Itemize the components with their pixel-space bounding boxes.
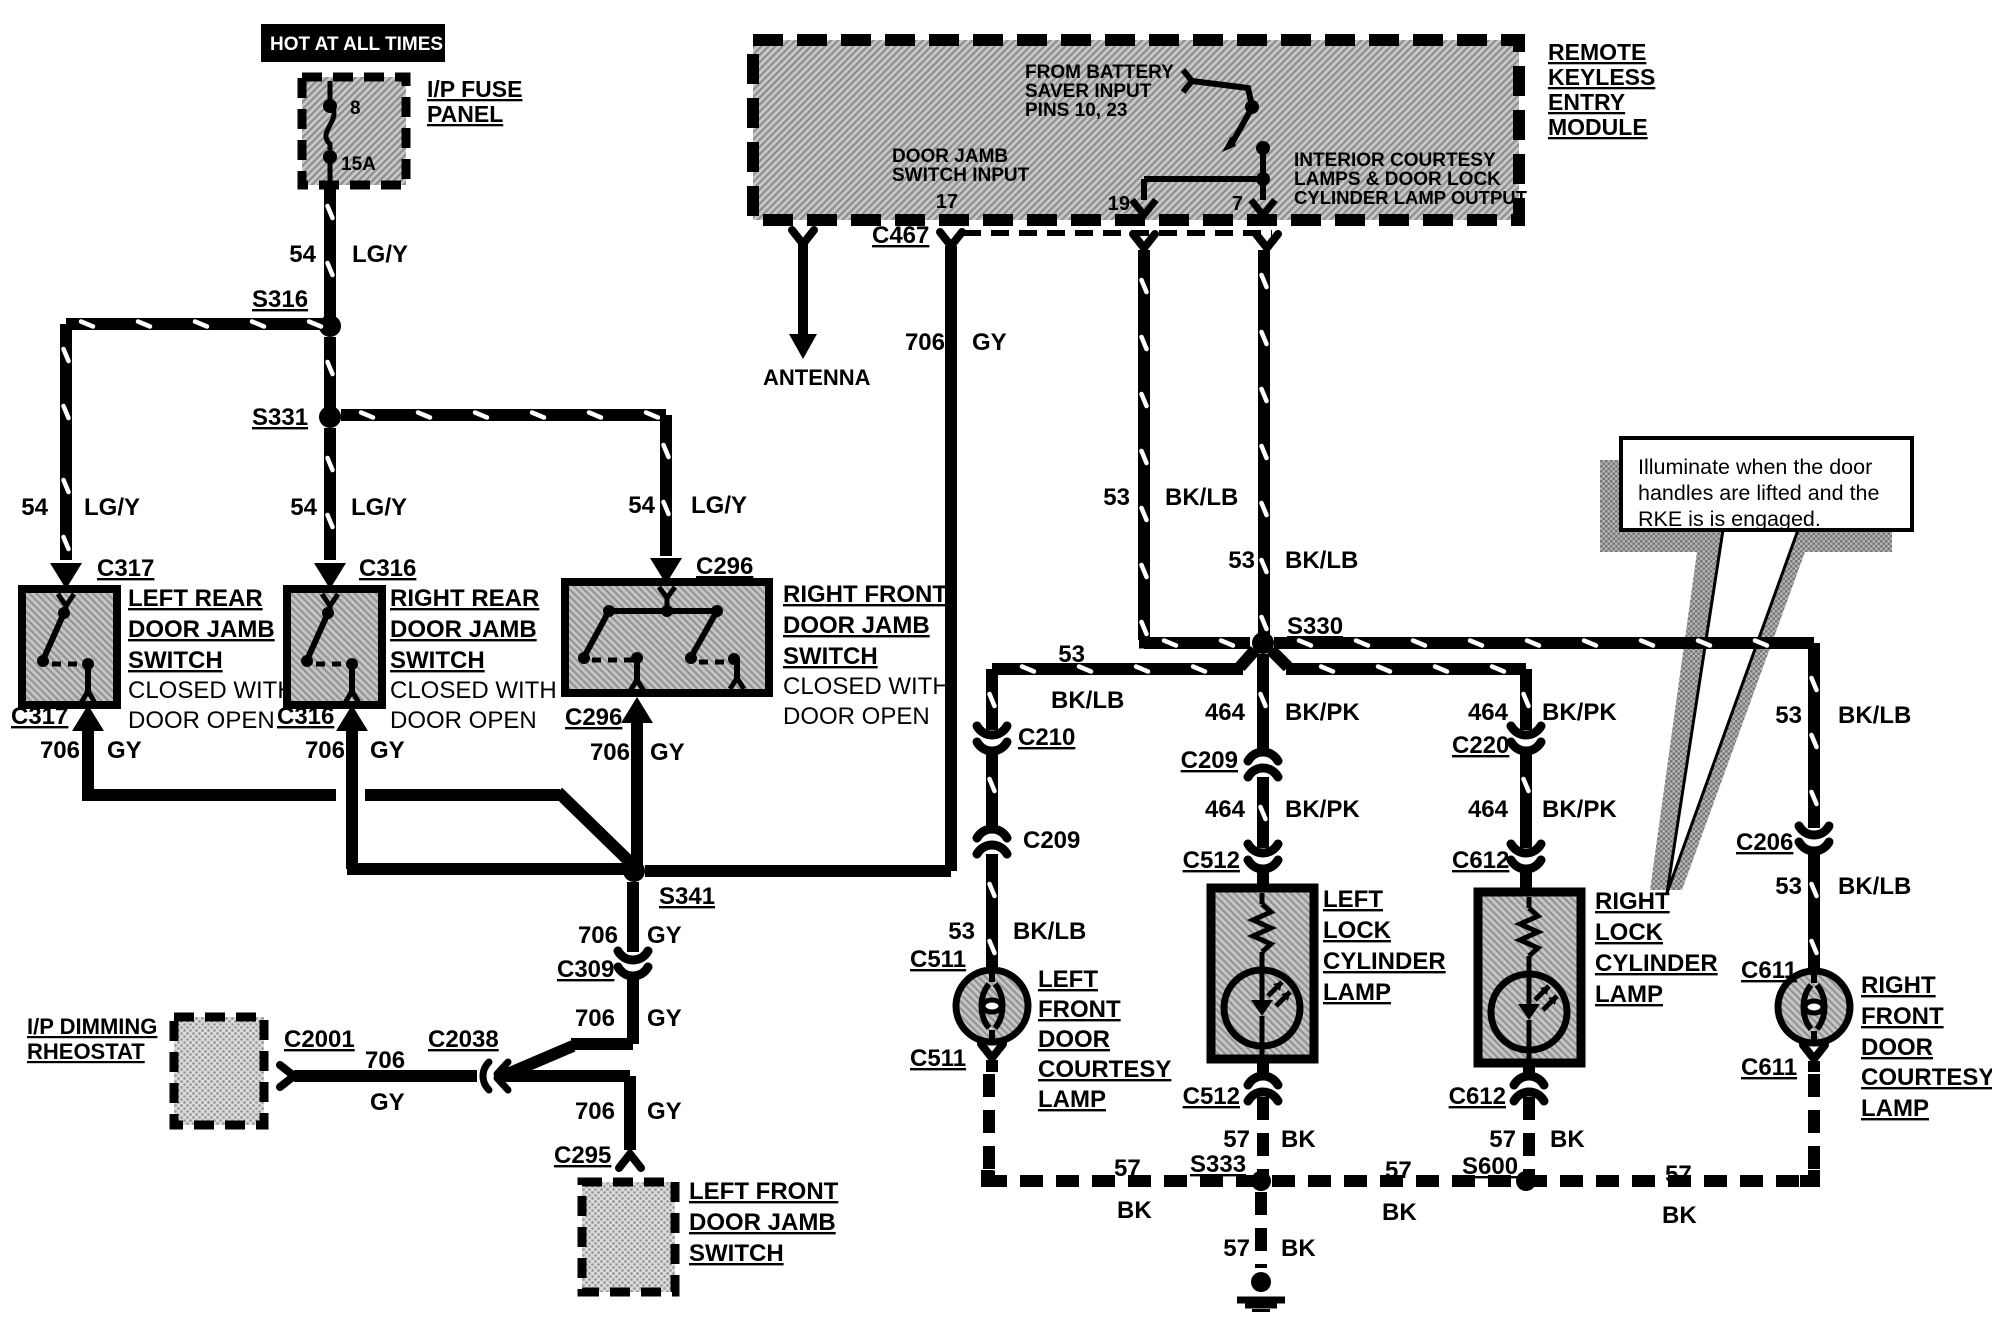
svg-text:COURTESY: COURTESY <box>1038 1056 1171 1083</box>
svg-text:FROM BATTERY: FROM BATTERY <box>1025 62 1174 83</box>
connector C2001 <box>280 1065 294 1087</box>
label 53 BK/LB above C511 <box>948 918 1086 945</box>
svg-text:DOOR OPEN: DOOR OPEN <box>390 707 537 734</box>
wire 706 C317 to S341 <box>82 731 336 801</box>
label 54 LG/Y right <box>628 492 747 519</box>
connector Y pin19 <box>1133 234 1155 248</box>
svg-text:BK/PK: BK/PK <box>1542 796 1617 823</box>
label C512 bottom <box>1183 1083 1240 1110</box>
svg-text:C612: C612 <box>1452 847 1509 874</box>
label 706 GY right <box>590 739 685 766</box>
svg-text:DOOR JAMB: DOOR JAMB <box>783 612 930 639</box>
label C511 bottom <box>910 1045 966 1072</box>
svg-text:8: 8 <box>350 98 361 119</box>
label 53 BK/LB right bottom <box>1775 873 1911 900</box>
svg-text:C611: C611 <box>1741 1054 1797 1081</box>
svg-text:LG/Y: LG/Y <box>691 492 747 519</box>
svg-text:15A: 15A <box>341 154 376 175</box>
label 54 LG/Y middle <box>290 494 407 521</box>
label 57 BK left vert <box>1223 1126 1316 1153</box>
svg-text:LAMP: LAMP <box>1595 981 1663 1008</box>
svg-text:MODULE: MODULE <box>1548 114 1648 140</box>
svg-text:DOOR JAMB: DOOR JAMB <box>128 616 275 643</box>
svg-text:RIGHT: RIGHT <box>1595 888 1670 915</box>
wire S330 to right branch <box>1271 650 1532 730</box>
label RIGHT REAR DOOR JAMB SWITCH <box>390 585 557 734</box>
svg-text:SWITCH: SWITCH <box>128 647 223 674</box>
svg-text:LAMP: LAMP <box>1861 1095 1929 1122</box>
wire C206 to C611 <box>1808 854 1820 968</box>
svg-text:C2001: C2001 <box>284 1026 355 1053</box>
svg-text:LOCK: LOCK <box>1323 917 1392 944</box>
svg-text:ENTRY: ENTRY <box>1548 89 1625 115</box>
svg-text:C512: C512 <box>1183 1083 1240 1110</box>
svg-text:BK: BK <box>1662 1202 1697 1229</box>
label 57 BK bus left <box>1114 1155 1152 1224</box>
wire S330 to right <box>1274 637 1820 828</box>
svg-text:C209: C209 <box>1181 747 1238 774</box>
svg-text:17: 17 <box>936 191 958 213</box>
label C316 top <box>359 555 416 582</box>
svg-text:DOOR JAMB: DOOR JAMB <box>390 616 537 643</box>
label 57 BK right vert <box>1489 1126 1585 1153</box>
svg-text:FRONT: FRONT <box>1861 1003 1944 1030</box>
svg-text:53: 53 <box>1775 702 1802 729</box>
label C317 bottom <box>11 703 68 730</box>
svg-text:COURTESY: COURTESY <box>1861 1064 1992 1091</box>
svg-text:BK/LB: BK/LB <box>1051 687 1124 714</box>
wire C220 to C612 <box>1520 754 1532 848</box>
svg-text:706: 706 <box>575 1005 615 1032</box>
label LEFT LOCK CYLINDER LAMP <box>1323 886 1446 1006</box>
svg-text:706: 706 <box>40 737 80 764</box>
svg-text:C209: C209 <box>1023 827 1080 854</box>
svg-text:C295: C295 <box>554 1142 611 1169</box>
label S333 <box>1190 1151 1246 1178</box>
arrow up into C316 <box>336 705 368 731</box>
svg-text:GY: GY <box>647 922 682 949</box>
svg-text:54: 54 <box>628 492 655 519</box>
label 53 BK/LB second <box>1228 547 1358 574</box>
svg-text:FRONT: FRONT <box>1038 996 1121 1023</box>
label C317 top <box>97 555 154 582</box>
left front door courtesy lamp C511 <box>956 970 1028 1042</box>
svg-text:S333: S333 <box>1190 1151 1246 1178</box>
svg-text:SWITCH: SWITCH <box>783 643 878 670</box>
svg-text:DOOR: DOOR <box>1861 1034 1933 1061</box>
svg-text:706: 706 <box>305 737 345 764</box>
label RIGHT LOCK CYLINDER LAMP <box>1595 888 1718 1008</box>
label 54 LG/Y <box>289 241 408 268</box>
remote keyless entry module box <box>753 40 1519 220</box>
wire S341 to module pin 17 <box>645 246 957 877</box>
label C209 center <box>1181 747 1238 774</box>
svg-text:464: 464 <box>1205 796 1246 823</box>
svg-text:S331: S331 <box>252 404 308 431</box>
wire S316 to left branch <box>60 318 322 560</box>
label 464 BK/PK center first <box>1205 699 1360 726</box>
svg-text:GY: GY <box>107 737 142 764</box>
svg-text:464: 464 <box>1205 699 1246 726</box>
label 706 GY below C309 <box>575 1005 682 1032</box>
module pin 7 label <box>1232 193 1243 215</box>
I/P dimming rheostat box <box>174 1017 264 1125</box>
svg-text:Illuminate when the door: Illuminate when the door <box>1638 455 1872 479</box>
svg-text:DOOR JAMB: DOOR JAMB <box>892 146 1008 167</box>
svg-text:RIGHT REAR: RIGHT REAR <box>390 585 539 612</box>
svg-text:54: 54 <box>21 494 48 521</box>
label 53 BK/LB right top <box>1775 702 1911 729</box>
svg-text:I/P DIMMING: I/P DIMMING <box>27 1014 157 1039</box>
svg-text:RIGHT FRONT: RIGHT FRONT <box>783 581 947 608</box>
module pin 17 label <box>936 191 958 213</box>
svg-text:53: 53 <box>1103 484 1130 511</box>
wire S331 right branch <box>341 409 672 556</box>
svg-text:LG/Y: LG/Y <box>352 241 408 268</box>
svg-text:706: 706 <box>905 329 945 356</box>
label S341 <box>659 883 715 910</box>
svg-text:RKE is is engaged.: RKE is is engaged. <box>1638 507 1821 531</box>
svg-text:S600: S600 <box>1462 1153 1518 1180</box>
svg-text:CYLINDER: CYLINDER <box>1323 948 1446 975</box>
module text DOOR JAMB SWITCH INPUT <box>892 146 1030 186</box>
svg-text:464: 464 <box>1468 699 1509 726</box>
connector C2038 <box>483 1062 508 1090</box>
label C206 <box>1736 829 1793 856</box>
svg-text:LAMP: LAMP <box>1323 979 1391 1006</box>
svg-text:706: 706 <box>365 1047 405 1074</box>
svg-text:RHEOSTAT: RHEOSTAT <box>27 1039 145 1064</box>
svg-text:SWITCH: SWITCH <box>689 1240 784 1267</box>
module relay switch <box>1132 70 1275 215</box>
svg-text:BK/PK: BK/PK <box>1285 796 1360 823</box>
label 57 BK bus right <box>1662 1161 1697 1229</box>
svg-text:57: 57 <box>1665 1161 1692 1188</box>
connector C209 <box>977 829 1007 854</box>
svg-text:GY: GY <box>370 737 405 764</box>
svg-text:KEYLESS: KEYLESS <box>1548 64 1655 90</box>
svg-text:7: 7 <box>1232 193 1243 215</box>
wire C209 to C511 <box>986 854 998 968</box>
right rear door jamb switch C316 <box>287 589 382 705</box>
wire 706 C316 to S341 <box>346 731 625 875</box>
module text INTERIOR COURTESY LAMPS & DOOR LOCK CYLINDER LAMP OUTPUT <box>1294 150 1528 208</box>
svg-text:S316: S316 <box>252 286 308 313</box>
svg-text:57: 57 <box>1223 1235 1250 1262</box>
svg-text:C512: C512 <box>1183 847 1240 874</box>
label 706 GY below C2038 <box>575 1098 682 1125</box>
label C296 bottom <box>565 704 622 731</box>
svg-text:LG/Y: LG/Y <box>351 494 407 521</box>
svg-text:BK/PK: BK/PK <box>1285 699 1360 726</box>
svg-text:706: 706 <box>575 1098 615 1125</box>
wire S341 down <box>627 882 639 952</box>
wire 54 LG/Y fuse to S316 <box>324 186 336 320</box>
svg-text:S330: S330 <box>1287 613 1343 640</box>
label I/P FUSE PANEL <box>427 76 522 127</box>
wire C210 to C209 <box>986 754 998 828</box>
svg-text:53: 53 <box>1775 873 1802 900</box>
svg-text:C2038: C2038 <box>428 1026 499 1053</box>
svg-text:BK: BK <box>1550 1126 1585 1153</box>
svg-text:54: 54 <box>289 241 316 268</box>
svg-text:57: 57 <box>1223 1126 1250 1153</box>
node S600 <box>1516 1171 1536 1191</box>
svg-text:C511: C511 <box>910 946 966 973</box>
svg-text:C309: C309 <box>557 956 614 983</box>
svg-text:BK/LB: BK/LB <box>1838 873 1911 900</box>
node S333 <box>1251 1171 1271 1191</box>
connector C611 fork <box>1803 1045 1825 1059</box>
label 464 BK/PK right first <box>1468 699 1617 726</box>
svg-text:CLOSED WITH: CLOSED WITH <box>390 677 557 704</box>
label 53 over left branch <box>1058 641 1085 668</box>
label 706 GY middle <box>305 737 405 764</box>
svg-text:53: 53 <box>948 918 975 945</box>
svg-text:C611: C611 <box>1741 957 1797 984</box>
svg-text:53: 53 <box>1058 641 1085 668</box>
label C309 <box>557 956 614 983</box>
node S331 <box>319 406 341 428</box>
arrow into C316 <box>314 563 346 589</box>
svg-text:BK: BK <box>1117 1197 1152 1224</box>
svg-text:BK/LB: BK/LB <box>1838 702 1911 729</box>
svg-text:CYLINDER LAMP OUTPUT: CYLINDER LAMP OUTPUT <box>1294 187 1528 208</box>
wire 53 pin7 to S330 <box>1258 250 1270 636</box>
label C209 plain <box>1023 827 1080 854</box>
node S330 <box>1252 632 1274 654</box>
label BK/LB left branch <box>1051 687 1124 714</box>
label C2001 <box>284 1026 355 1053</box>
label RIGHT FRONT DOOR COURTESY LAMP <box>1861 972 1992 1122</box>
right lock cylinder lamp box <box>1478 892 1581 1063</box>
svg-text:BK: BK <box>1281 1235 1316 1262</box>
svg-text:DOOR: DOOR <box>1038 1026 1110 1053</box>
wire 53 pin19 to S330 <box>1138 250 1150 640</box>
wire 706 C317 segment B <box>365 789 634 866</box>
label C511 top <box>910 946 966 973</box>
wire C612 to S600 <box>1523 1063 1535 1176</box>
label 706 GY left <box>40 737 142 764</box>
arrow into C296 <box>650 558 682 584</box>
label ANTENNA <box>763 365 871 390</box>
svg-text:I/P FUSE: I/P FUSE <box>427 76 522 102</box>
svg-text:C316: C316 <box>359 555 416 582</box>
label 706 GY module <box>905 329 1007 356</box>
label S331 <box>252 404 308 431</box>
left front door jamb switch box <box>582 1182 675 1292</box>
svg-text:LAMP: LAMP <box>1038 1086 1106 1113</box>
right front door courtesy lamp C611 <box>1778 971 1850 1043</box>
svg-text:PANEL: PANEL <box>427 101 503 127</box>
svg-text:LEFT REAR: LEFT REAR <box>128 585 263 612</box>
label LEFT FRONT DOOR JAMB SWITCH <box>689 1178 839 1267</box>
svg-text:C296: C296 <box>696 553 753 580</box>
connector C612 <box>1511 844 1541 869</box>
label REMOTE KEYLESS ENTRY MODULE <box>1548 39 1655 140</box>
svg-text:SWITCH INPUT: SWITCH INPUT <box>892 165 1030 186</box>
svg-text:CLOSED WITH: CLOSED WITH <box>783 673 950 700</box>
svg-text:PINS 10, 23: PINS 10, 23 <box>1025 100 1127 121</box>
svg-text:DOOR JAMB: DOOR JAMB <box>689 1209 836 1236</box>
label C220 <box>1452 732 1509 759</box>
node S341 <box>623 860 645 882</box>
svg-text:57: 57 <box>1114 1155 1141 1182</box>
svg-text:C316: C316 <box>277 703 334 730</box>
bus wire 57 BK <box>981 1170 1820 1187</box>
connector C210 <box>977 726 1007 751</box>
label C512 top <box>1183 847 1240 874</box>
connector C295 <box>619 1154 641 1168</box>
svg-text:C612: C612 <box>1449 1083 1506 1110</box>
svg-text:C317: C317 <box>97 555 154 582</box>
wire 706 C296 to S341 <box>631 723 643 866</box>
svg-text:DOOR OPEN: DOOR OPEN <box>783 703 930 730</box>
label C612 top <box>1452 847 1509 874</box>
label 57 BK ground <box>1223 1235 1316 1262</box>
label C611 top <box>1741 957 1797 984</box>
label S316 <box>252 286 308 313</box>
label HOT AT ALL TIMES <box>261 24 445 62</box>
label 706 over wire <box>365 1047 405 1074</box>
label C210 <box>1018 724 1075 751</box>
svg-text:C296: C296 <box>565 704 622 731</box>
wire 706 C2001 to C2038 <box>294 1070 477 1082</box>
svg-text:DOOR OPEN: DOOR OPEN <box>128 707 275 734</box>
wire C2038 branch <box>497 1070 636 1150</box>
callout pointer <box>1667 530 1798 893</box>
label I/P DIMMING RHEOSTAT <box>27 1014 157 1064</box>
wire S330 to left branch <box>986 650 1255 730</box>
label 54 LG/Y left <box>21 494 140 521</box>
wire C611 to bus <box>1808 1061 1820 1178</box>
label 464 BK/PK center second <box>1205 796 1360 823</box>
svg-text:BK/LB: BK/LB <box>1285 547 1358 574</box>
svg-text:53: 53 <box>1228 547 1255 574</box>
svg-text:CLOSED WITH: CLOSED WITH <box>128 677 295 704</box>
connector C512 <box>1248 844 1278 869</box>
svg-text:C206: C206 <box>1736 829 1793 856</box>
svg-text:706: 706 <box>590 739 630 766</box>
arrow up into C317 <box>72 705 104 731</box>
svg-text:C220: C220 <box>1452 732 1509 759</box>
label C611 bottom <box>1741 1054 1797 1081</box>
antenna <box>789 230 817 359</box>
label RIGHT FRONT DOOR JAMB SWITCH <box>783 581 950 730</box>
wire C512 to lamp box <box>1257 872 1269 888</box>
I/P fuse panel box <box>302 77 406 185</box>
connector C512 bottom <box>1248 1076 1278 1101</box>
svg-text:LEFT: LEFT <box>1038 966 1098 993</box>
svg-text:ANTENNA: ANTENNA <box>763 365 871 390</box>
svg-text:57: 57 <box>1489 1126 1516 1153</box>
left lock cylinder lamp box <box>1211 888 1314 1059</box>
svg-text:706: 706 <box>578 922 618 949</box>
svg-text:C511: C511 <box>910 1045 966 1072</box>
svg-text:54: 54 <box>290 494 317 521</box>
label 464 BK/PK right second <box>1468 796 1617 823</box>
label C295 <box>554 1142 611 1169</box>
arrow up into C296 <box>621 697 653 723</box>
svg-text:BK/LB: BK/LB <box>1165 484 1238 511</box>
node S316 <box>319 315 341 337</box>
wire C209 to C512 <box>1257 777 1269 848</box>
fuse 8 15A <box>323 81 376 186</box>
arrow into C317 <box>50 563 82 589</box>
ground symbol <box>1237 1272 1285 1313</box>
svg-text:HOT AT ALL TIMES: HOT AT ALL TIMES <box>270 34 443 55</box>
wire C511 to bus <box>984 1060 998 1182</box>
connector Y pin17 <box>940 232 962 246</box>
label 706 GY above C309 <box>578 922 682 949</box>
svg-text:LEFT: LEFT <box>1323 886 1383 913</box>
svg-text:RIGHT: RIGHT <box>1861 972 1936 999</box>
label 57 BK bus mid <box>1382 1157 1417 1226</box>
svg-text:LG/Y: LG/Y <box>84 494 140 521</box>
wire C512 to S333 <box>1257 1059 1269 1176</box>
svg-text:19: 19 <box>1108 193 1130 215</box>
wire S333 to ground <box>1255 1192 1267 1268</box>
wire C612 to lamp box <box>1520 872 1532 892</box>
label 53 BK/LB first <box>1103 484 1238 511</box>
connector C209 center <box>1248 752 1278 777</box>
svg-text:GY: GY <box>647 1098 682 1125</box>
module pin 19 label <box>1108 193 1130 215</box>
callout box <box>1621 438 1912 531</box>
svg-text:SAVER INPUT: SAVER INPUT <box>1025 81 1152 102</box>
svg-text:BK: BK <box>1281 1126 1316 1153</box>
svg-text:GY: GY <box>650 739 685 766</box>
svg-text:464: 464 <box>1468 796 1509 823</box>
module text FROM BATTERY SAVER INPUT PINS 10, 23 <box>1025 62 1174 121</box>
connector line C467 <box>963 230 1272 236</box>
right front door jamb switch C296 <box>565 582 769 693</box>
svg-text:BK/LB: BK/LB <box>1013 918 1086 945</box>
svg-text:GY: GY <box>647 1005 682 1032</box>
svg-text:handles are lifted and the: handles are lifted and the <box>1638 481 1879 505</box>
svg-text:GY: GY <box>370 1089 405 1116</box>
label C2038 <box>428 1026 499 1053</box>
svg-text:LEFT FRONT: LEFT FRONT <box>689 1178 839 1205</box>
svg-text:INTERIOR COURTESY: INTERIOR COURTESY <box>1294 150 1496 171</box>
label S600 <box>1462 1153 1518 1180</box>
connector C220 <box>1511 726 1541 751</box>
callout shadow <box>1600 460 1892 890</box>
svg-text:S341: S341 <box>659 883 715 910</box>
connector C511 fork <box>981 1044 1003 1058</box>
svg-text:GY: GY <box>972 329 1007 356</box>
svg-text:C210: C210 <box>1018 724 1075 751</box>
svg-text:BK: BK <box>1382 1199 1417 1226</box>
wire S316 to S331 <box>324 337 336 412</box>
svg-text:CYLINDER: CYLINDER <box>1595 950 1718 977</box>
label S330 <box>1287 613 1343 640</box>
svg-text:LOCK: LOCK <box>1595 919 1664 946</box>
wire C309 down <box>498 979 639 1078</box>
wire pin19 corner to S330 <box>1139 637 1250 649</box>
svg-text:SWITCH: SWITCH <box>390 647 485 674</box>
connector Y pin7 <box>1256 234 1278 248</box>
wire S330 down <box>1257 654 1269 750</box>
svg-text:C317: C317 <box>11 703 68 730</box>
label C467 <box>872 222 929 249</box>
label LEFT FRONT DOOR COURTESY LAMP <box>1038 966 1171 1113</box>
connector C309 <box>618 951 648 976</box>
svg-text:57: 57 <box>1385 1157 1412 1184</box>
svg-text:BK/PK: BK/PK <box>1542 699 1617 726</box>
label GY under wire <box>370 1089 405 1116</box>
connector C612 bottom <box>1514 1076 1544 1101</box>
